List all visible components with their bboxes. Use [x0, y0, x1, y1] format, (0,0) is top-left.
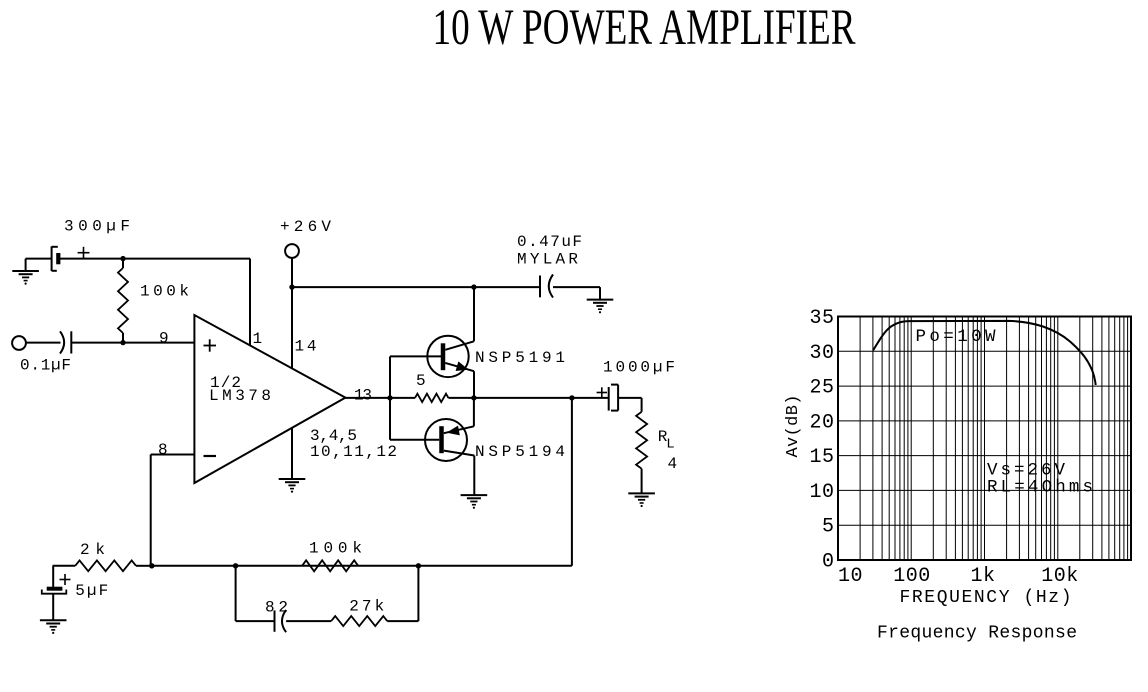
wire	[553, 286, 600, 288]
svg-text:25: 25	[809, 377, 834, 400]
svg-text:4: 4	[668, 455, 678, 473]
wire feedback vertical	[571, 398, 573, 566]
svg-text:10: 10	[809, 481, 834, 504]
wire / ground (5uF)	[52, 594, 54, 621]
svg-text:L: L	[666, 437, 674, 453]
capacitor C5 5uF	[52, 566, 54, 588]
svg-text:14: 14	[295, 338, 317, 356]
ground (300uF cap)	[25, 259, 27, 271]
svg-text:2k: 2k	[80, 541, 105, 559]
capacitor C3 0.47uF	[539, 276, 541, 298]
svg-text:NSP5194: NSP5194	[475, 443, 565, 461]
svg-text:Vs=26V: Vs=26V	[987, 461, 1065, 481]
capacitor C6 82	[274, 610, 276, 631]
minus input mark	[204, 455, 217, 457]
wire to op-amp	[71, 342, 194, 344]
transistor Q1 NSP5191	[427, 336, 468, 377]
svg-text:Frequency Response: Frequency Response	[877, 624, 1077, 644]
wire	[618, 397, 642, 399]
svg-text:+26V: +26V	[280, 218, 331, 236]
svg-text:LM378: LM378	[209, 387, 271, 405]
svg-text:0.1µF: 0.1µF	[20, 357, 71, 375]
wire base Q1	[390, 355, 441, 357]
op-amp ground stub	[291, 428, 293, 479]
resistor RL 4	[641, 398, 643, 412]
svg-text:1k: 1k	[970, 565, 995, 588]
plus sign C4	[597, 392, 607, 394]
svg-text:5: 5	[822, 516, 835, 539]
wire pin 13 output	[345, 397, 415, 399]
node junction	[289, 284, 294, 289]
svg-text:100: 100	[893, 565, 931, 588]
svg-text:82: 82	[265, 599, 288, 617]
svg-text:13: 13	[354, 387, 372, 405]
node junction pin8	[149, 563, 154, 568]
svg-text:300µF: 300µF	[64, 218, 130, 236]
capacitor C2 0.1uF	[60, 331, 64, 353]
resistor R5 27k	[331, 616, 387, 626]
resistor R2 5	[415, 394, 448, 402]
wire output node to cap	[474, 397, 609, 399]
svg-text:15: 15	[809, 446, 834, 469]
ground (0.47uF)	[599, 287, 601, 300]
svg-text:20: 20	[809, 411, 834, 434]
svg-text:0: 0	[822, 551, 835, 574]
input terminal	[12, 336, 26, 350]
ground (Q2)	[461, 494, 488, 496]
svg-text:10 W POWER AMPLIFIER: 10 W POWER AMPLIFIER	[433, 0, 856, 56]
wire	[58, 258, 250, 260]
node junction pin13	[387, 395, 392, 400]
wire +26V down pin 14	[291, 258, 293, 368]
ground (RL)	[628, 492, 655, 494]
wire feedback horizontal	[152, 565, 572, 567]
svg-text:MYLAR: MYLAR	[517, 251, 578, 269]
svg-text:NSP5191: NSP5191	[475, 349, 565, 367]
graph grid vertical lines	[860, 317, 1128, 561]
wire +26V rail	[292, 286, 540, 288]
node junction	[120, 256, 125, 261]
svg-text:5µF: 5µF	[75, 582, 108, 600]
svg-text:FREQUENCY (Hz): FREQUENCY (Hz)	[900, 588, 1072, 608]
wire	[26, 342, 61, 344]
svg-text:Av(dB): Av(dB)	[784, 395, 803, 458]
svg-text:10,11,12: 10,11,12	[310, 443, 397, 461]
svg-text:RL=4Ohms: RL=4Ohms	[987, 478, 1093, 498]
wire pin1 drop	[249, 259, 251, 345]
wire pin 8	[151, 454, 195, 456]
op-amp U1 1/2 LM378	[194, 315, 345, 483]
graph grid horizontal lines	[838, 351, 1131, 525]
svg-text:10k: 10k	[1041, 565, 1079, 588]
node junction	[471, 284, 476, 289]
graph border	[838, 317, 1131, 561]
wire base tie vertical	[389, 356, 391, 439]
wire	[286, 620, 331, 622]
wire	[26, 258, 52, 260]
svg-text:1000µF: 1000µF	[603, 359, 675, 377]
resistor R1 100k	[122, 259, 124, 268]
node junction right	[416, 563, 421, 568]
resistor R4 100k feedback	[302, 560, 358, 571]
svg-text:8: 8	[158, 441, 168, 459]
plus input mark	[204, 345, 217, 347]
wire lower branch left	[235, 566, 237, 621]
plus sign C5	[60, 579, 71, 581]
node junction left	[233, 563, 238, 568]
node junction	[120, 340, 125, 345]
svg-text:35: 35	[809, 307, 834, 330]
svg-text:0.47uF: 0.47uF	[517, 233, 582, 251]
svg-text:9: 9	[159, 329, 169, 347]
svg-text:30: 30	[809, 342, 834, 365]
resistor R3 2k	[53, 565, 76, 567]
capacitor C4 1000uF	[608, 387, 610, 411]
svg-text:27k: 27k	[349, 598, 384, 616]
svg-text:1: 1	[253, 330, 263, 348]
+26V terminal	[285, 244, 299, 258]
node junction emitters	[471, 395, 476, 400]
svg-text:5: 5	[416, 372, 426, 390]
wire Q2 base	[390, 439, 439, 441]
capacitor C1 300uF	[51, 246, 53, 271]
node junction feedback	[569, 395, 574, 400]
svg-text:10: 10	[838, 565, 863, 588]
transistor Q2 NSP5194	[425, 419, 467, 461]
svg-text:100k: 100k	[309, 540, 362, 558]
svg-text:100k: 100k	[140, 283, 189, 301]
response curve	[873, 321, 1096, 385]
plus sign C1	[78, 252, 90, 254]
wire lower branch right	[387, 620, 418, 622]
